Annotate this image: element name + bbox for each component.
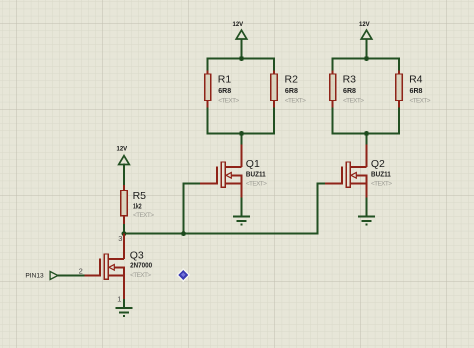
svg-text:<TEXT>: <TEXT> xyxy=(246,180,267,187)
svg-text:2N7000: 2N7000 xyxy=(130,261,152,270)
svg-text:6R8: 6R8 xyxy=(285,86,298,95)
svg-text:R2: R2 xyxy=(285,74,299,86)
svg-text:BUZ11: BUZ11 xyxy=(246,169,266,178)
svg-text:2: 2 xyxy=(79,266,83,275)
svg-text:<TEXT>: <TEXT> xyxy=(371,180,392,187)
svg-text:<TEXT>: <TEXT> xyxy=(218,98,239,105)
svg-text:12V: 12V xyxy=(117,146,128,153)
svg-text:1: 1 xyxy=(117,294,121,303)
svg-text:PIN13: PIN13 xyxy=(25,273,44,280)
svg-text:<TEXT>: <TEXT> xyxy=(343,98,364,105)
svg-text:<TEXT>: <TEXT> xyxy=(130,272,151,279)
svg-text:<TEXT>: <TEXT> xyxy=(285,98,306,105)
svg-text:12V: 12V xyxy=(359,21,370,28)
svg-text:6R8: 6R8 xyxy=(343,86,356,95)
svg-text:1k2: 1k2 xyxy=(133,202,142,211)
svg-text:R4: R4 xyxy=(409,74,423,86)
svg-text:R5: R5 xyxy=(133,190,147,202)
svg-text:<TEXT>: <TEXT> xyxy=(410,98,431,105)
svg-text:6R8: 6R8 xyxy=(218,86,231,95)
svg-text:3: 3 xyxy=(118,234,122,243)
svg-text:6R8: 6R8 xyxy=(410,86,423,95)
svg-text:R1: R1 xyxy=(218,74,232,86)
svg-text:12V: 12V xyxy=(233,21,244,28)
svg-text:BUZ11: BUZ11 xyxy=(371,169,391,178)
svg-text:R3: R3 xyxy=(343,74,357,86)
svg-text:<TEXT>: <TEXT> xyxy=(133,212,154,219)
